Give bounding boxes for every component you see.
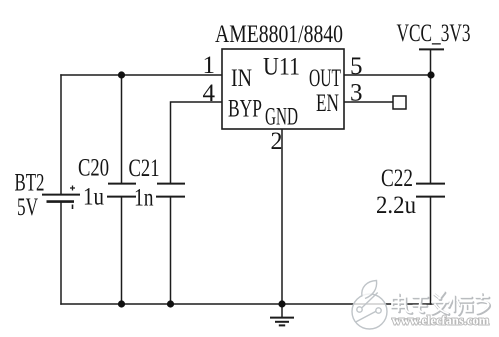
svg-text:2: 2 bbox=[271, 126, 283, 155]
svg-text:1u: 1u bbox=[83, 182, 104, 211]
watermark logo circle bbox=[352, 281, 387, 330]
ground stem bbox=[281, 304, 283, 317]
node junction dot top C20 bbox=[118, 71, 125, 78]
wire C20 upper stem bbox=[121, 75, 123, 183]
wire GND pin2 stem bbox=[281, 129, 283, 304]
capacitor C21 bbox=[156, 184, 185, 197]
svg-text:1n: 1n bbox=[134, 183, 154, 212]
node junction dot VCC bbox=[427, 71, 434, 78]
svg-text:IN: IN bbox=[231, 63, 252, 92]
wire C20 lower stem bbox=[121, 197, 123, 304]
svg-text:VCC_3V3: VCC_3V3 bbox=[397, 18, 471, 47]
svg-text:5: 5 bbox=[350, 51, 363, 80]
svg-text:5V: 5V bbox=[17, 192, 38, 221]
power symbol VCC_3V3 bar bbox=[419, 48, 444, 50]
wire C22 lower stem bbox=[430, 197, 432, 304]
node junction dot bottom C20 bbox=[118, 300, 125, 307]
svg-text:EN: EN bbox=[316, 88, 339, 117]
wire pin3 EN bbox=[344, 101, 393, 103]
svg-text:C20: C20 bbox=[78, 153, 109, 182]
capacitor C20 bbox=[107, 184, 136, 197]
svg-text:AME8801/8840: AME8801/8840 bbox=[215, 19, 343, 48]
svg-text:C21: C21 bbox=[129, 153, 160, 182]
wire BYP pin4 to C21 bbox=[171, 102, 223, 183]
svg-text:3: 3 bbox=[350, 78, 363, 107]
wire pin1 top bbox=[61, 74, 222, 76]
node junction dot ground bbox=[278, 300, 285, 307]
wire C21 lower stem bbox=[170, 197, 172, 304]
wire battery to bottom rail bbox=[60, 202, 62, 304]
svg-text:4: 4 bbox=[203, 78, 216, 107]
svg-text:2.2u: 2.2u bbox=[376, 190, 416, 219]
capacitor C22 bbox=[416, 184, 445, 197]
wire VCC bar to node and C22 bbox=[430, 50, 432, 183]
svg-text:1: 1 bbox=[203, 50, 216, 79]
node EN terminal square bbox=[393, 96, 406, 109]
op-amp U11 IC box AME8801 bbox=[222, 49, 344, 129]
wire bottom rail bbox=[61, 303, 433, 305]
svg-text:U11: U11 bbox=[263, 52, 300, 81]
wire pin5 to VCC node bbox=[344, 74, 431, 76]
svg-text:BYP: BYP bbox=[228, 94, 262, 123]
wire left vertical to battery bbox=[60, 75, 62, 194]
svg-text:C22: C22 bbox=[381, 163, 413, 192]
svg-text:www.elecfans.com: www.elecfans.com bbox=[392, 313, 489, 328]
ground bbox=[270, 318, 294, 326]
watermark chinese text bbox=[393, 293, 490, 315]
node junction dot bottom C21 bbox=[167, 300, 174, 307]
battery BT2 bbox=[42, 186, 80, 210]
